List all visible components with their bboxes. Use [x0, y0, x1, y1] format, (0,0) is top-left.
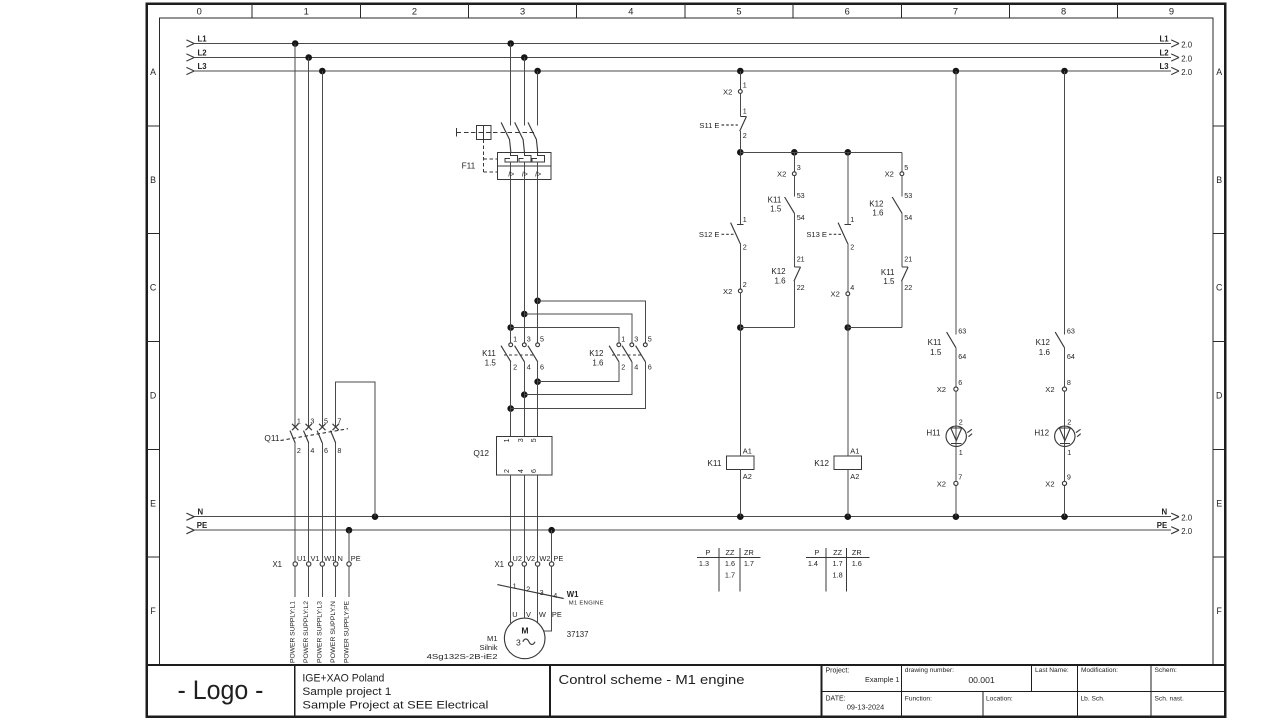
svg-text:1.7: 1.7: [744, 559, 754, 568]
wire X2:1 to S11: [739, 93, 741, 116]
svg-text:1.7: 1.7: [833, 559, 843, 568]
wire X1:PE cable stub: [348, 566, 350, 597]
svg-text:W2: W2: [539, 554, 550, 563]
svg-text:37137: 37137: [567, 630, 589, 639]
pushbutton S11 (NC): [699, 107, 746, 140]
wire K12 pin2 to phase T3: [538, 362, 619, 382]
svg-text:1.7: 1.7: [725, 570, 735, 579]
wire K11 64 to X2:6: [955, 347, 957, 387]
node B2/K12 junction: [521, 391, 528, 398]
coil K12: [814, 447, 861, 481]
node PE/M1 junction: [548, 527, 555, 534]
svg-text:Function:: Function:: [905, 696, 932, 703]
svg-text:PE: PE: [553, 554, 563, 563]
svg-text:21: 21: [904, 255, 912, 264]
wire X2:6 to H11: [955, 391, 957, 446]
svg-text:W: W: [539, 610, 546, 619]
wire X1:N cable stub: [335, 566, 337, 597]
svg-text:- Logo -: - Logo -: [178, 675, 264, 705]
svg-text:V1: V1: [311, 554, 320, 563]
svg-text:9: 9: [1067, 473, 1071, 482]
wire L2 to Q11 pin3: [308, 58, 310, 428]
svg-text:V2: V2: [526, 554, 535, 563]
wire X1:U2 to motor U: [510, 566, 512, 623]
svg-text:5: 5: [904, 163, 908, 172]
svg-text:1.4: 1.4: [808, 559, 818, 568]
svg-text:6: 6: [845, 7, 850, 17]
svg-text:6: 6: [531, 469, 538, 473]
wire X2:4 to K12 coil node: [847, 296, 849, 328]
wire X1:U1 cable stub: [294, 566, 296, 597]
svg-text:DATE:: DATE:: [826, 696, 846, 703]
wire control rail: [740, 151, 902, 153]
svg-text:E: E: [1216, 498, 1222, 508]
svg-text:I>: I>: [508, 172, 514, 179]
svg-text:2: 2: [959, 418, 963, 427]
svg-text:K11: K11: [707, 458, 722, 468]
svg-text:2: 2: [850, 242, 854, 251]
svg-text:8: 8: [337, 446, 341, 455]
terminal X2:7: [937, 473, 963, 489]
svg-text:U2: U2: [513, 554, 522, 563]
wire F11 pole2 to K11 pin3: [523, 179, 525, 343]
svg-text:C: C: [150, 283, 157, 293]
wire K12 pin4 to phase T2: [524, 362, 632, 395]
svg-text:PE: PE: [197, 521, 207, 530]
wire X1:PE to motor frame: [544, 566, 552, 631]
svg-text:4: 4: [634, 362, 638, 371]
node B1/K12 junction: [534, 378, 541, 385]
svg-text:Last Name:: Last Name:: [1035, 667, 1069, 674]
svg-text:Lb. Sch.: Lb. Sch.: [1081, 696, 1105, 703]
svg-text:X1: X1: [272, 560, 282, 569]
svg-text:1.6: 1.6: [852, 559, 862, 568]
svg-text:00.001: 00.001: [968, 675, 995, 685]
svg-text:9: 9: [1169, 7, 1174, 17]
svg-text:POWER SUPPLY:L1: POWER SUPPLY:L1: [290, 601, 297, 663]
svg-text:6: 6: [540, 362, 544, 371]
node N/H12 junction: [1061, 513, 1068, 520]
svg-text:1: 1: [513, 581, 517, 590]
svg-text:K12: K12: [771, 267, 786, 276]
node L2/Q11 junction: [305, 54, 312, 61]
svg-text:C: C: [1216, 283, 1223, 293]
wire F11 pole1 to K11 pin1: [510, 179, 512, 343]
svg-text:H11: H11: [926, 428, 941, 437]
coil K11: [707, 447, 754, 481]
wire L3 to K11 63: [955, 71, 957, 335]
svg-text:M: M: [521, 626, 528, 636]
node T3/K12 junction: [507, 324, 514, 331]
node K12 coil branch junction: [845, 324, 852, 331]
terminal X2:5: [885, 163, 909, 179]
svg-text:2: 2: [621, 362, 625, 371]
wire Q11 pin8 to X1:N: [335, 443, 337, 562]
wire L1 to F11 pole1: [510, 44, 512, 126]
svg-text:0: 0: [197, 7, 202, 17]
contact K11 21-22 (NC interlock): [881, 255, 912, 292]
wire L1 to Q11 pin1: [294, 44, 296, 428]
svg-text:Q11: Q11: [264, 433, 279, 443]
svg-text:D: D: [150, 391, 156, 401]
svg-text:P: P: [705, 548, 710, 557]
svg-text:7: 7: [337, 416, 341, 425]
pushbutton S13 (NO start reverse): [806, 215, 854, 251]
wire L3 to F11 pole3: [537, 71, 539, 125]
node N/K11 coil junction: [737, 513, 744, 520]
svg-text:K11: K11: [928, 338, 942, 347]
svg-text:X2: X2: [777, 170, 786, 179]
svg-text:4: 4: [527, 362, 531, 371]
wire X1:W1 cable stub: [321, 566, 323, 597]
svg-text:Schem:: Schem:: [1155, 667, 1178, 674]
svg-text:64: 64: [958, 352, 966, 361]
svg-text:2.0: 2.0: [1181, 527, 1193, 536]
svg-text:M1 ENGINE: M1 ENGINE: [569, 600, 604, 606]
svg-text:S12 E: S12 E: [699, 230, 720, 239]
terminal X2:3: [777, 163, 801, 179]
svg-text:B: B: [1216, 175, 1222, 185]
svg-text:5: 5: [531, 438, 538, 442]
wire X2:7 to N: [955, 486, 957, 517]
svg-text:drawing number:: drawing number:: [905, 667, 954, 674]
contactor K11 main contacts: [482, 335, 544, 372]
svg-text:K11: K11: [768, 195, 782, 204]
node B3/K12 junction: [507, 405, 514, 412]
svg-text:54: 54: [904, 213, 912, 222]
wire Q12 pin2 to X1:U2: [510, 475, 512, 562]
pushbutton S12 (NO start): [699, 215, 747, 251]
svg-text:1: 1: [504, 438, 511, 442]
wire L3 tap to K12 pin5: [538, 301, 646, 343]
wire X2:3 to K11 53: [793, 176, 795, 197]
svg-text:S11 E: S11 E: [699, 121, 719, 130]
node control rail S13 junction: [845, 149, 852, 156]
terminal X2:2: [723, 280, 747, 296]
svg-text:PE: PE: [552, 610, 562, 619]
svg-text:PE: PE: [1157, 521, 1167, 530]
wire PE bus: [186, 521, 1192, 536]
node N/Q11 pole4 junction: [372, 513, 379, 520]
svg-text:8: 8: [1067, 378, 1071, 387]
svg-text:3: 3: [310, 416, 314, 425]
svg-text:3: 3: [520, 7, 525, 17]
wire K12 22 to node: [793, 281, 795, 327]
svg-text:6: 6: [324, 446, 328, 455]
svg-text:X2: X2: [831, 290, 840, 299]
svg-text:63: 63: [958, 326, 966, 335]
terminal X2:6: [937, 378, 963, 394]
svg-text:2: 2: [513, 362, 517, 371]
svg-text:4: 4: [850, 283, 854, 292]
svg-text:4: 4: [553, 591, 557, 600]
terminal strip X1 motor side: [494, 554, 563, 569]
node control rail S11 junction: [737, 149, 744, 156]
wire Q12 pin4 to X1:V2: [523, 475, 525, 562]
svg-text:6: 6: [648, 362, 652, 371]
svg-text:L3: L3: [198, 62, 208, 71]
svg-text:1: 1: [743, 81, 747, 90]
svg-text:4: 4: [628, 7, 633, 17]
node L3/H12 branch junction: [1061, 68, 1068, 75]
node L3/control junction: [737, 68, 744, 75]
svg-text:1: 1: [850, 215, 854, 224]
svg-text:1.5: 1.5: [770, 205, 782, 214]
svg-text:1.6: 1.6: [592, 359, 604, 368]
terminal X2:4: [831, 283, 855, 298]
svg-text:Silnik: Silnik: [479, 643, 497, 652]
motor M1: [427, 618, 589, 661]
node L2/F11 junction: [521, 54, 528, 61]
svg-text:K12: K12: [869, 199, 884, 208]
wire X2:9 to N: [1064, 486, 1066, 517]
svg-text:2: 2: [743, 242, 747, 251]
node control rail K11 hold junction: [791, 149, 798, 156]
svg-text:K11: K11: [881, 268, 895, 277]
svg-text:1.6: 1.6: [872, 209, 884, 218]
contact K12 53-54 (NO aux): [869, 191, 912, 222]
contact K12 63-64 (NO aux lamp): [1036, 326, 1075, 361]
node L3/Q11 junction: [319, 68, 326, 75]
svg-text:53: 53: [797, 191, 805, 200]
svg-text:Example 1: Example 1: [865, 675, 899, 684]
svg-text:K11: K11: [482, 349, 496, 358]
svg-text:2: 2: [1067, 418, 1071, 427]
svg-text:7: 7: [953, 7, 958, 17]
svg-text:1: 1: [513, 335, 517, 344]
svg-text:F: F: [150, 606, 156, 616]
svg-text:X2: X2: [723, 287, 732, 296]
wire L2 to F11 pole2: [523, 58, 525, 126]
svg-text:X2: X2: [885, 170, 894, 179]
svg-text:Q12: Q12: [473, 448, 489, 458]
svg-text:1.6: 1.6: [725, 559, 735, 568]
svg-text:E: E: [150, 498, 156, 508]
svg-text:X2: X2: [723, 87, 732, 96]
svg-text:1.5: 1.5: [883, 277, 895, 286]
switch Q12: [473, 437, 552, 476]
svg-text:Project:: Project:: [826, 668, 850, 675]
svg-text:54: 54: [797, 213, 805, 222]
svg-text:3: 3: [634, 335, 638, 344]
node L1/Q11 junction: [292, 40, 299, 47]
wire L2 bus: [186, 48, 1192, 63]
wire L1 tap to K12 pin1: [511, 328, 619, 343]
svg-text:2.0: 2.0: [1181, 68, 1193, 77]
wire node to K12 coil: [847, 328, 849, 457]
wire S13 to X2:4: [847, 244, 849, 292]
svg-text:5: 5: [540, 335, 544, 344]
wire Q11 pin4 to X1:V1: [308, 443, 310, 562]
wire K11 54 to K12 21: [793, 213, 795, 266]
contact K11 53-54 (NO aux): [768, 191, 805, 222]
svg-text:H12: H12: [1034, 428, 1049, 437]
svg-text:1: 1: [743, 215, 747, 224]
svg-text:6: 6: [958, 378, 962, 387]
node N/H11 junction: [953, 513, 960, 520]
wire N bus: [186, 507, 1192, 522]
svg-text:1: 1: [297, 416, 301, 425]
terminal X2:9: [1045, 473, 1071, 489]
svg-text:W1: W1: [324, 554, 335, 563]
svg-text:POWER SUPPLY:L2: POWER SUPPLY:L2: [303, 601, 310, 663]
wire Q11 pin6 to X1:W1: [321, 443, 323, 562]
svg-text:3: 3: [527, 335, 531, 344]
svg-text:Sample Project at SEE Electric: Sample Project at SEE Electrical: [302, 700, 488, 712]
svg-text:Control scheme - M1 engine: Control scheme - M1 engine: [559, 672, 745, 687]
svg-text:1.8: 1.8: [833, 570, 843, 579]
svg-text:B: B: [150, 175, 156, 185]
wire X2:2 to K11 coil node: [739, 293, 741, 328]
wire PE bus to X1:PE: [348, 530, 350, 562]
wire K11 22 to node 2: [901, 281, 903, 327]
wire X1:V2 to motor V: [523, 566, 525, 618]
svg-text:Modification:: Modification:: [1081, 667, 1118, 674]
svg-text:3: 3: [518, 438, 525, 442]
motor protection circuit breaker F11: [457, 122, 552, 179]
wire PE bus to X1:PE motor: [551, 530, 553, 562]
svg-text:3: 3: [797, 163, 801, 172]
svg-text:ZZ: ZZ: [833, 548, 842, 557]
svg-text:ZZ: ZZ: [726, 548, 735, 557]
svg-text:K12: K12: [589, 349, 604, 358]
svg-text:64: 64: [1067, 352, 1075, 361]
svg-text:L2: L2: [1160, 48, 1170, 57]
svg-text:1.6: 1.6: [1039, 348, 1051, 357]
svg-text:A2: A2: [743, 472, 752, 481]
lamp H11: [926, 418, 972, 457]
svg-text:21: 21: [797, 255, 805, 264]
svg-text:X2: X2: [1045, 480, 1054, 489]
wire node to K11 coil: [739, 328, 741, 457]
svg-text:1: 1: [621, 335, 625, 344]
wire L3 to Q11 pin5: [321, 71, 323, 427]
svg-text:1.6: 1.6: [774, 277, 786, 286]
wire hold branch join 2: [848, 327, 902, 329]
svg-text:X2: X2: [937, 480, 946, 489]
svg-text:P: P: [814, 548, 819, 557]
svg-text:2: 2: [743, 280, 747, 289]
wire rail to S13: [847, 152, 849, 224]
node L1/F11 junction: [507, 40, 514, 47]
svg-text:L2: L2: [198, 48, 208, 57]
svg-text:63: 63: [1067, 326, 1075, 335]
svg-text:3: 3: [540, 588, 544, 597]
svg-text:N: N: [338, 554, 343, 563]
wire K12 pin6 to phase T1: [511, 362, 646, 409]
svg-text:POWER SUPPLY:L3: POWER SUPPLY:L3: [317, 601, 324, 663]
svg-text:2: 2: [526, 585, 530, 594]
wire L3 to K12 63: [1064, 71, 1066, 335]
terminal X2:1: [723, 81, 747, 97]
wire L2 tap to K12 pin3: [524, 314, 632, 343]
svg-text:IGE+XAO Poland: IGE+XAO Poland: [302, 673, 384, 685]
svg-text:A1: A1: [743, 447, 752, 456]
svg-text:5: 5: [648, 335, 652, 344]
svg-text:5: 5: [324, 416, 328, 425]
svg-text:4Sg132S-2B-iE2: 4Sg132S-2B-iE2: [427, 652, 498, 661]
svg-text:PE: PE: [351, 554, 361, 563]
svg-text:5: 5: [736, 7, 741, 17]
svg-text:K12: K12: [814, 458, 829, 468]
node T1/K12 junction: [534, 298, 541, 305]
svg-text:A1: A1: [850, 447, 859, 456]
svg-text:1: 1: [304, 7, 309, 17]
wire Q12 pin6 to X1:W2: [537, 475, 539, 562]
svg-text:X2: X2: [1045, 385, 1054, 394]
svg-text:1.5: 1.5: [930, 348, 942, 357]
svg-text:2: 2: [504, 469, 511, 473]
wire H11 to X2:7: [955, 447, 957, 482]
svg-text:2: 2: [743, 131, 747, 140]
node PE/X1 junction: [346, 527, 353, 534]
wire X1:V1 cable stub: [308, 566, 310, 597]
svg-text:A: A: [1216, 67, 1222, 77]
node T2/K12 junction: [521, 311, 528, 318]
contact K11 63-64 (NO aux lamp): [928, 326, 967, 361]
svg-text:09-13-2024: 09-13-2024: [847, 703, 884, 712]
svg-text:F: F: [1217, 606, 1223, 616]
svg-text:F11: F11: [462, 161, 476, 171]
svg-text:N: N: [198, 507, 204, 516]
svg-text:W1: W1: [567, 590, 579, 599]
svg-text:1: 1: [1067, 448, 1071, 457]
svg-text:I>: I>: [522, 172, 528, 179]
wire S12 to X2:2: [739, 244, 741, 289]
svg-text:53: 53: [904, 191, 912, 200]
wire K12 64 to X2:8: [1064, 347, 1066, 387]
node N/K12 coil junction: [845, 513, 852, 520]
svg-text:M1: M1: [487, 634, 498, 643]
svg-text:1.5: 1.5: [485, 359, 497, 368]
wire rail to X2:3: [793, 152, 795, 172]
svg-text:1.3: 1.3: [699, 559, 709, 568]
svg-text:X2: X2: [937, 385, 946, 394]
svg-text:L1: L1: [1160, 34, 1170, 43]
wire H12 to X2:9: [1064, 447, 1066, 482]
wire F11 pole3 to K11 pin5: [537, 179, 539, 343]
svg-text:ZR: ZR: [852, 548, 862, 557]
wire X2:5 to K12 53: [901, 176, 903, 197]
svg-text:2: 2: [297, 446, 301, 455]
node L3/F11 junction: [534, 68, 541, 75]
svg-text:2: 2: [412, 7, 417, 17]
svg-text:L1: L1: [198, 34, 208, 43]
svg-text:2.0: 2.0: [1181, 514, 1193, 523]
wire K12 54 to K11 21: [901, 213, 903, 266]
wire rail to S12: [739, 152, 741, 224]
terminal strip X1 supply side: [272, 554, 360, 569]
wire N bus to Q11 pin7: [336, 382, 375, 517]
wire X2:8 to H12: [1064, 391, 1066, 446]
svg-text:U1: U1: [297, 554, 306, 563]
cable W1 marker: [497, 581, 603, 619]
svg-text:2.0: 2.0: [1181, 40, 1193, 49]
svg-text:Sample project 1: Sample project 1: [302, 686, 391, 698]
wire K11 A2 to N: [739, 469, 741, 516]
svg-text:4: 4: [518, 469, 525, 473]
wire X1:W2 to motor W: [537, 566, 539, 622]
svg-text:22: 22: [904, 283, 912, 292]
svg-text:ZR: ZR: [744, 548, 754, 557]
svg-text:1: 1: [743, 107, 747, 116]
wire K11 pin2 to Q12 pin1: [510, 362, 512, 437]
wire K12 A2 to N: [847, 469, 849, 516]
contact K12 21-22 (NC interlock): [771, 255, 804, 292]
wire K11 pin4 to Q12 pin3: [523, 362, 525, 437]
svg-text:X1: X1: [494, 560, 504, 569]
terminal X2:8: [1045, 378, 1071, 394]
